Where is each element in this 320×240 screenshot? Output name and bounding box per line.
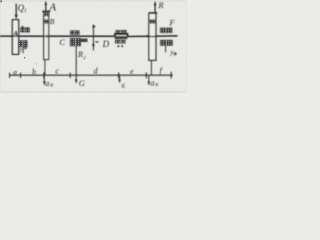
force an down arrow below dimension line (left) xyxy=(43,75,45,82)
clamp box below beam at D xyxy=(115,36,128,39)
force R up arrow above rod 4 xyxy=(154,3,156,13)
column rod 1 (left) xyxy=(12,20,18,54)
text labels xyxy=(12,0,176,90)
rod 4 top cap xyxy=(149,12,157,14)
force arrow below dimension line at D tick xyxy=(119,76,121,81)
dimension line xyxy=(9,74,173,76)
paper background xyxy=(0,0,187,93)
scan speckles xyxy=(0,0,37,64)
clamp box above beam at D xyxy=(115,30,126,33)
column rod 4 (right) xyxy=(149,13,156,60)
clamp block F on rod 4 xyxy=(149,19,157,23)
wire: beam visible through rod 2 xyxy=(43,35,49,37)
wire: main beam line left segment xyxy=(0,35,115,37)
small dash below beam right of arrow xyxy=(95,41,98,43)
clamp box below beam at C xyxy=(70,38,81,46)
clamp box below beam near node A xyxy=(19,40,28,47)
force Q1 down arrow onto rod 1 xyxy=(15,4,17,17)
clamp box above beam near node A xyxy=(20,27,30,32)
clamp box above beam at C xyxy=(70,30,80,34)
clamp block B upper band on rod 2 xyxy=(43,12,49,16)
clamp box below beam at right end xyxy=(160,40,173,46)
wire: beam raised bump at support D xyxy=(115,34,128,37)
small mark below right clamp box xyxy=(165,46,167,53)
force A up arrow above rod 2 xyxy=(45,3,47,11)
small mark below left clamp box xyxy=(22,46,24,53)
force arrow through C down to G xyxy=(75,46,77,81)
clamp block B on rod 2 xyxy=(43,19,50,23)
wire: beam visible through rod 1 xyxy=(12,35,20,37)
paper grain xyxy=(0,0,187,93)
wire: beam visible through rod 4 xyxy=(148,36,156,38)
wire: main beam line right segment xyxy=(128,35,178,38)
dimension ticks xyxy=(9,73,11,78)
column rod 2 xyxy=(44,12,49,60)
reaction arrow up below beam near D xyxy=(92,25,94,51)
clamp box above beam at right end xyxy=(160,28,173,33)
force an down arrow below dimension line (right) xyxy=(148,76,150,83)
wire: rod 4 centerline to dimension line xyxy=(150,60,152,75)
white mottling inside hatched boxes xyxy=(19,13,172,46)
small flag at top of reaction line xyxy=(92,24,95,27)
wire: rod 2 centerline to dimension line xyxy=(44,60,46,76)
rod 2 top cap xyxy=(42,10,50,12)
